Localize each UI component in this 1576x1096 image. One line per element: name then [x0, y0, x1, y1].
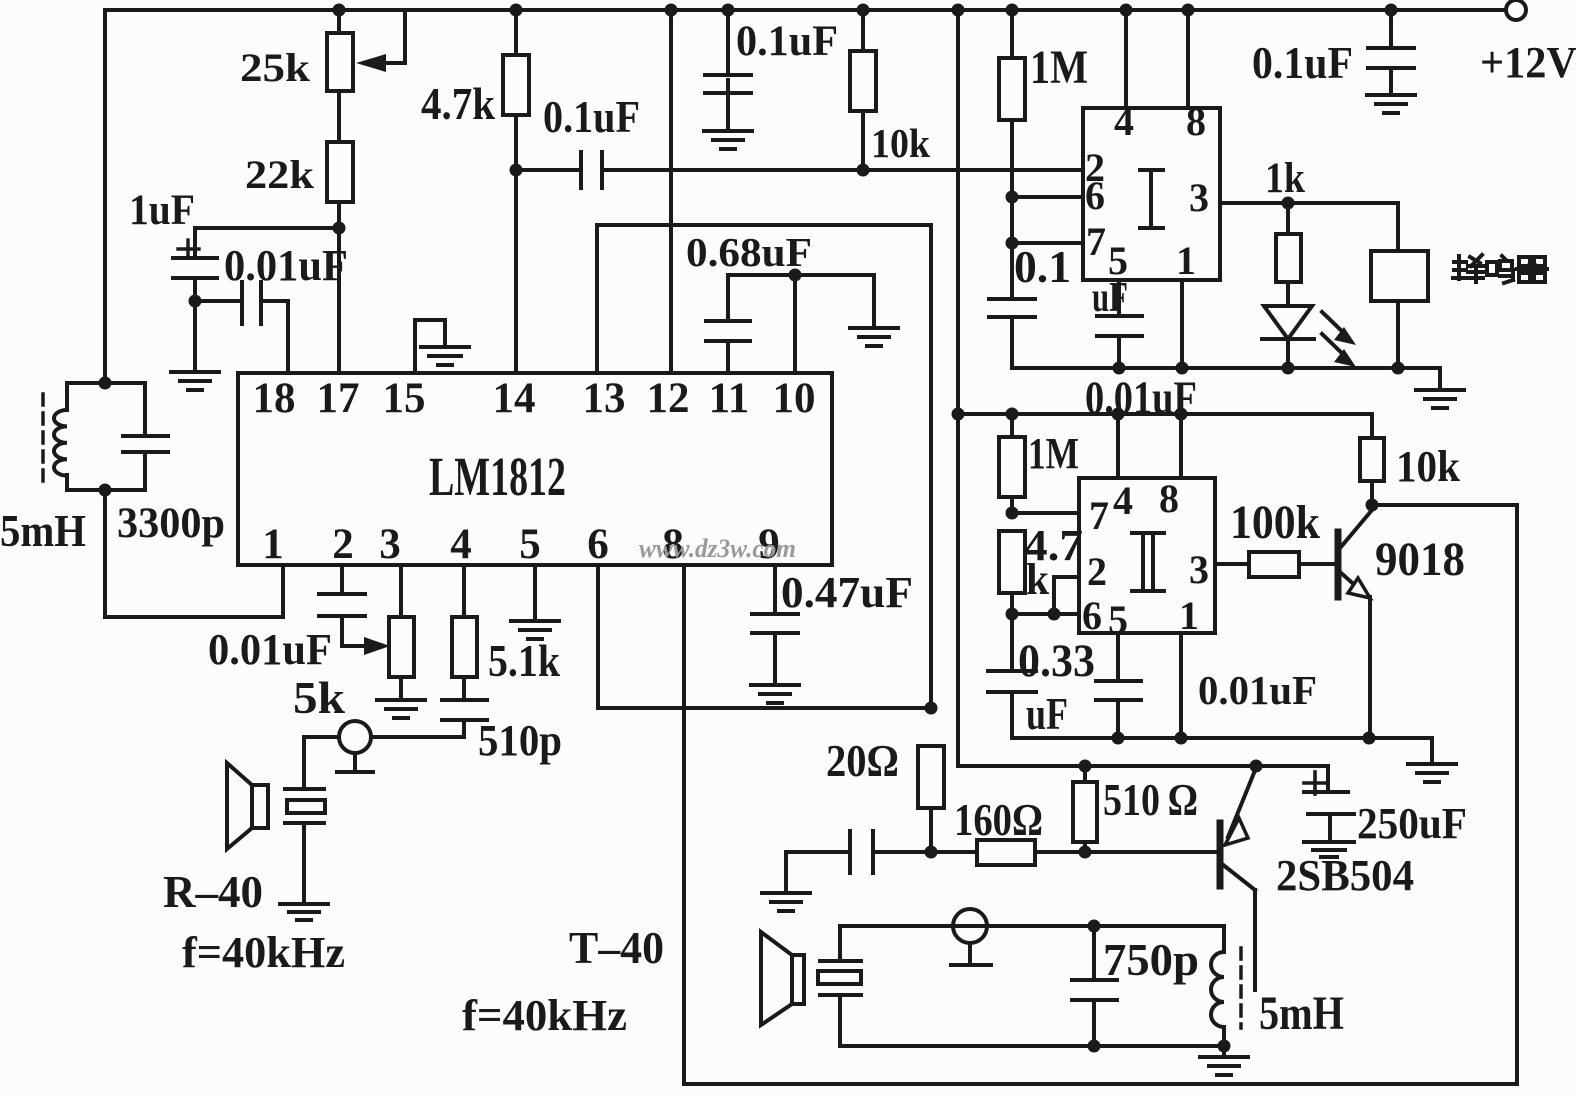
capacitor 1uF: [129, 187, 339, 308]
svg-text:10k: 10k: [871, 120, 930, 166]
ground (pin 5): [511, 565, 559, 639]
wire +12V top rail: [105, 10, 1505, 383]
LED: [1262, 282, 1356, 368]
svg-text:R–40: R–40: [163, 866, 263, 917]
svg-text:uF: uF: [1026, 689, 1068, 739]
svg-text:+12V: +12V: [1480, 38, 1576, 87]
svg-text:6: 6: [1085, 173, 1105, 218]
capacitor 0.1uF (+12V right) + ground: [1252, 4, 1415, 114]
coupling capacitor (driver input) + ground: [762, 831, 931, 911]
svg-text:0.1uF: 0.1uF: [736, 18, 838, 65]
capacitor 0.33uF (555-II): [988, 614, 1095, 739]
svg-text:7: 7: [1089, 493, 1109, 538]
resistor 100k (555-II pin3): [1215, 496, 1335, 577]
capacitor 0.1uF (555-I pins 6/7): [989, 241, 1128, 368]
potentiometer 5k (pin 3) + ground: [293, 565, 425, 723]
labels T-40: [462, 922, 664, 1040]
svg-text:4: 4: [1113, 478, 1133, 523]
svg-text:0.01uF: 0.01uF: [1198, 667, 1317, 713]
svg-text:0.1uF: 0.1uF: [1252, 37, 1353, 88]
terminal +12V: [1480, 0, 1576, 87]
svg-text:1k: 1k: [1265, 155, 1305, 202]
capacitor 0.1uF (coupling pin14 to 555-I pin2): [516, 91, 1083, 188]
svg-text:510p: 510p: [478, 716, 562, 765]
svg-text:160Ω: 160Ω: [954, 794, 1043, 845]
wire +12V drop x958: [952, 4, 965, 767]
wire 555-I pin8 to rail: [1182, 4, 1195, 109]
svg-text:13: 13: [583, 375, 626, 422]
wire 555-I pin6: [1006, 191, 1084, 204]
svg-text:4.7k: 4.7k: [421, 78, 495, 129]
resistor 1k: [1276, 203, 1301, 282]
T-40 tank bottom wire + ground: [840, 1040, 1248, 1076]
speaker horn T-40: [761, 932, 804, 1025]
svg-text:www.dz3w.com: www.dz3w.com: [639, 534, 796, 563]
wire 555-I pin4 to rail: [1120, 4, 1133, 109]
resistor 1M (555-II): [999, 414, 1079, 520]
resistor 22k: [245, 91, 353, 373]
svg-text:5mH: 5mH: [1259, 987, 1344, 1040]
svg-text:1M: 1M: [1030, 41, 1088, 94]
resistor 510 ohm: [1073, 766, 1198, 859]
svg-text:9018: 9018: [1375, 533, 1465, 586]
svg-text:1uF: 1uF: [129, 187, 195, 234]
IC U2 555 (I): [1083, 99, 1220, 283]
capacitor 250uF + ground: [1304, 766, 1467, 857]
svg-text:7: 7: [1086, 219, 1106, 264]
wire pin 13 loop to 20 ohm node: [597, 225, 931, 708]
resistor 10k (9018 collector): [1360, 414, 1460, 512]
svg-text:0.47uF: 0.47uF: [781, 568, 913, 617]
svg-text:5k: 5k: [293, 672, 345, 723]
svg-text:18: 18: [253, 375, 296, 422]
svg-text:12: 12: [647, 375, 690, 422]
inductor 5mH (output): [1211, 926, 1344, 1046]
wire 555-II pin4: [1116, 414, 1120, 478]
svg-text:T–40: T–40: [569, 922, 664, 973]
wire 555-II pin8: [1179, 414, 1183, 478]
transducer R-40 (crystal): [285, 789, 325, 904]
svg-text:3: 3: [1189, 547, 1209, 592]
resistor 20 ohm: [826, 735, 944, 859]
wire 555-II top rail: [958, 408, 1372, 421]
wire pin 8 long loop: [684, 505, 1517, 1084]
svg-text:0.33: 0.33: [1018, 635, 1095, 687]
transducer T-40 (crystal): [818, 926, 861, 1046]
wire 555-II pin6 + pin2 jog: [1012, 577, 1079, 621]
svg-text:22k: 22k: [245, 152, 315, 197]
speaker horn R-40: [227, 763, 268, 849]
capacitor 750p: [1072, 926, 1199, 1053]
capacitor 0.47uF (pin 9) + ground: [751, 565, 913, 703]
label R-40: [163, 866, 345, 977]
ground (555-I bottom right): [1416, 368, 1464, 408]
inductor 5mH (receive transducer tank): [0, 377, 112, 557]
transistor Q1 9018: [1338, 510, 1465, 738]
ground (555-II bottom right): [1408, 738, 1456, 782]
label buzzer (Chinese): [1453, 255, 1547, 283]
wire output stage supply y766: [958, 760, 1328, 773]
trimmer circle (R-40): [337, 721, 373, 772]
IC U3 555 (II): [1079, 476, 1215, 642]
wire to R-40: [304, 737, 339, 789]
buzzer: [1371, 203, 1428, 368]
svg-text:1: 1: [1176, 238, 1196, 283]
wire pin 10: [793, 275, 797, 373]
svg-text:6: 6: [1082, 593, 1102, 638]
capacitor 3300p (tank): [105, 383, 225, 547]
svg-text:10k: 10k: [1396, 442, 1460, 491]
svg-text:5mH: 5mH: [0, 505, 86, 556]
svg-text:100k: 100k: [1230, 496, 1320, 549]
svg-text:17: 17: [317, 375, 360, 422]
svg-text:3300p: 3300p: [117, 500, 225, 547]
pin 15 jog + ground: [415, 320, 469, 373]
svg-text:10: 10: [773, 375, 816, 422]
capacitor 0.01uF (pin 18): [195, 241, 348, 373]
watermark: [639, 534, 796, 563]
capacitor 0.01uF (555-I pin5): [1085, 280, 1197, 424]
wire 555-I pin1: [1180, 280, 1184, 368]
capacitor 0.68uF (pin 11) + ground: [686, 229, 898, 373]
svg-text:0.01uF: 0.01uF: [224, 241, 348, 290]
svg-text:8: 8: [1159, 476, 1179, 521]
svg-text:1: 1: [262, 521, 284, 568]
resistor 5.1k (pin 4): [452, 565, 560, 700]
svg-text:k: k: [1026, 555, 1049, 604]
ground (R-40): [280, 904, 328, 920]
svg-text:f=40kHz: f=40kHz: [462, 991, 627, 1040]
ground (below 1uF): [171, 301, 219, 390]
IC U1 LM1812: [238, 373, 832, 568]
wire 555-I bottom rail: [1012, 362, 1440, 375]
capacitor 0.01uF (555-II pin5): [1096, 633, 1317, 738]
svg-text:0.68uF: 0.68uF: [686, 229, 812, 275]
svg-text:4: 4: [450, 521, 472, 568]
resistor 10k (to 555-I pin2 line): [850, 4, 930, 177]
svg-text:3: 3: [1189, 175, 1209, 220]
wire 555-I pin3: [1220, 155, 1398, 210]
svg-text:f=40kHz: f=40kHz: [182, 928, 345, 977]
svg-text:15: 15: [383, 375, 426, 422]
svg-text:0.1: 0.1: [1014, 241, 1071, 292]
svg-text:2: 2: [332, 521, 354, 568]
svg-text:1M: 1M: [1028, 429, 1079, 478]
resistor 4.7k: [421, 4, 529, 374]
transistor Q2 2SB504: [1220, 768, 1414, 990]
svg-text:14: 14: [493, 375, 536, 422]
svg-text:6: 6: [587, 521, 609, 568]
wire 555-II pin7: [1012, 511, 1079, 515]
resistor 4.7k (555-II): [999, 521, 1083, 621]
svg-text:2: 2: [1087, 549, 1107, 594]
svg-text:510 Ω: 510 Ω: [1103, 774, 1198, 825]
T-40 tank top wire + trimmer circle: [840, 909, 1224, 965]
wire pin 6 bottom: [598, 565, 938, 715]
svg-text:25k: 25k: [240, 45, 311, 90]
resistor 160 ohm: [931, 794, 1217, 865]
resistor 1M (555-I): [999, 4, 1088, 300]
wire 555-II bottom rail: [1012, 732, 1432, 745]
svg-text:5: 5: [519, 521, 541, 568]
svg-text:250uF: 250uF: [1357, 799, 1467, 848]
capacitor 0.01uF (pin 2 LM1812): [208, 565, 390, 674]
svg-text:5.1k: 5.1k: [488, 635, 560, 686]
wire 555-II pin1: [1179, 633, 1183, 738]
svg-text:0.01uF: 0.01uF: [208, 625, 332, 674]
svg-text:LM1812: LM1812: [429, 446, 566, 507]
svg-text:20Ω: 20Ω: [826, 735, 899, 786]
svg-text:0.1uF: 0.1uF: [543, 91, 640, 142]
wire pin 12 to +12V: [665, 4, 678, 374]
svg-text:3: 3: [379, 521, 401, 568]
wire node pin1 to tank: [105, 490, 283, 617]
svg-text:2SB504: 2SB504: [1276, 851, 1414, 900]
svg-text:11: 11: [709, 375, 750, 422]
capacitor 0.1uF (rail decoupling) + ground: [704, 4, 838, 150]
potentiometer 25k: [240, 4, 405, 92]
svg-text:750p: 750p: [1103, 934, 1199, 985]
wire 555-I pin7: [1006, 237, 1084, 250]
capacitor 510p: [372, 700, 562, 765]
